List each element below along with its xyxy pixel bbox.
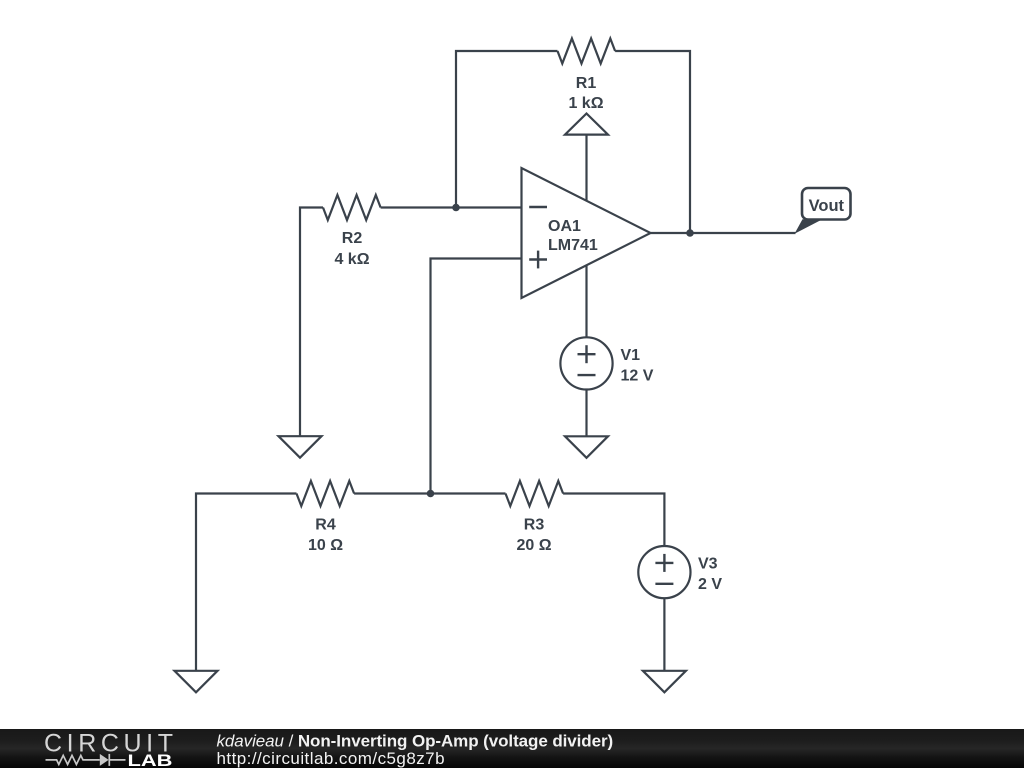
value 2 V xyxy=(698,576,722,593)
wire inverting node up and across to R1 xyxy=(456,51,558,208)
svg-text:12 V: 12 V xyxy=(621,367,654,384)
svg-text:R4: R4 xyxy=(315,516,336,533)
ground under V1 xyxy=(565,436,608,458)
net flag Vout tail xyxy=(795,219,823,234)
svg-text:1 kΩ: 1 kΩ xyxy=(568,95,603,112)
voltage source V3 xyxy=(638,546,690,598)
resistor R1 xyxy=(558,39,616,64)
label V1 xyxy=(621,347,641,364)
value 12 V xyxy=(621,367,654,384)
label R3 xyxy=(524,516,545,533)
power supply arrow V+ xyxy=(565,114,608,202)
label V3 xyxy=(698,555,718,572)
value LM741 xyxy=(548,237,598,254)
ground under V3 xyxy=(643,671,686,693)
svg-text:V1: V1 xyxy=(621,347,641,364)
ground under R2 xyxy=(279,436,322,458)
value 20 Ohm xyxy=(516,537,551,554)
svg-text:Vout: Vout xyxy=(809,197,845,215)
label R2 xyxy=(342,230,363,247)
svg-text:R1: R1 xyxy=(576,75,597,92)
footer url line xyxy=(217,749,446,768)
svg-text:2 V: 2 V xyxy=(698,576,722,593)
op-amp minus input sign xyxy=(529,206,547,208)
wire V1 to ground xyxy=(585,390,587,437)
value 4 kOhm xyxy=(334,251,369,268)
junction node output xyxy=(686,229,694,237)
wire bottom net right segment down to V3 xyxy=(563,494,664,547)
svg-text:R2: R2 xyxy=(342,230,363,247)
wire bottom net middle segment xyxy=(354,492,505,494)
net label Vout text xyxy=(809,197,845,215)
svg-text:20 Ω: 20 Ω xyxy=(516,537,551,554)
footer author/title line xyxy=(217,732,614,751)
wire R2 left lead down to ground xyxy=(300,208,323,437)
voltage source V1 xyxy=(560,337,612,389)
resistor R4 xyxy=(297,481,355,506)
svg-text:R3: R3 xyxy=(524,516,545,533)
junction node inverting input xyxy=(452,204,460,212)
value 1 kOhm xyxy=(568,95,603,112)
op-amp OA1 body xyxy=(522,168,651,298)
value 10 Ohm xyxy=(308,537,343,554)
label R1 xyxy=(576,75,597,92)
label OA1 xyxy=(548,218,581,235)
net flag Vout box xyxy=(802,188,851,220)
ground bottom left xyxy=(175,671,218,693)
resistor R2 xyxy=(323,195,381,220)
wire R2 to inverting input xyxy=(381,206,522,208)
wire V3 to ground xyxy=(663,598,665,671)
op-amp negative supply pin wire xyxy=(585,265,587,337)
svg-text:LM741: LM741 xyxy=(548,237,598,254)
op-amp plus input sign xyxy=(529,251,547,269)
svg-text:10 Ω: 10 Ω xyxy=(308,537,343,554)
CircuitLab logo LAB xyxy=(128,752,173,768)
wire bottom net left segment down to ground xyxy=(196,494,297,671)
junction node bottom net xyxy=(427,490,435,498)
svg-text:OA1: OA1 xyxy=(548,218,581,235)
CircuitLab logo resistor-diode line xyxy=(46,754,126,766)
svg-text:LAB: LAB xyxy=(128,752,173,768)
resistor R3 xyxy=(506,481,564,506)
wire R1 to output node xyxy=(615,51,690,233)
svg-text:http://circuitlab.com/c5g8z7b: http://circuitlab.com/c5g8z7b xyxy=(217,749,446,768)
wire non-inverting input to bottom net xyxy=(431,259,522,494)
label R4 xyxy=(315,516,336,533)
svg-text:4 kΩ: 4 kΩ xyxy=(334,251,369,268)
svg-text:V3: V3 xyxy=(698,555,718,572)
svg-text:kdavieau / Non-Inverting Op-Am: kdavieau / Non-Inverting Op-Amp (voltage… xyxy=(217,732,614,751)
wire output from op-amp xyxy=(651,232,796,234)
footer bar xyxy=(0,729,1024,768)
CircuitLab logo CIRCUIT xyxy=(44,729,173,757)
